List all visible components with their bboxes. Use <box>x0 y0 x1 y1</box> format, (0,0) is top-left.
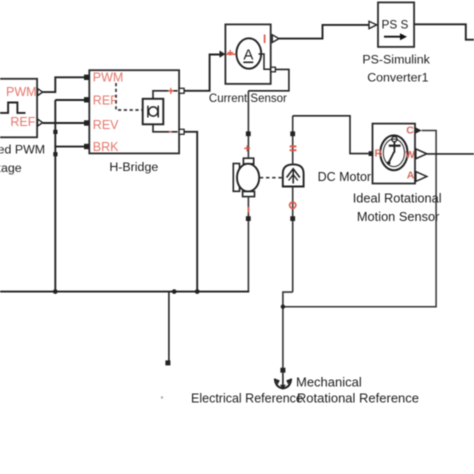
svg-text:PS-Simulink: PS-Simulink <box>362 53 430 67</box>
block M2 arch block with up arrow (DC Motor companion) <box>283 164 304 186</box>
wire H-Bridge + output to Current Sensor input <box>184 55 219 91</box>
port filled arrow C output of motion sensor <box>416 127 422 133</box>
port filled arrow + input of Current Sensor <box>220 51 226 58</box>
wire REF net branch to H-Bridge REF input <box>55 99 84 101</box>
block U2 H-Bridge <box>89 70 179 153</box>
port square top of DC Motor <box>246 131 251 136</box>
wire top lead of DC Motor <box>247 91 249 158</box>
svg-text:Voltage: Voltage <box>0 161 22 175</box>
wire top lead of arch block <box>292 116 294 165</box>
port square input PWM of H-Bridge <box>84 75 89 80</box>
wire REF net vertical <box>54 100 56 292</box>
wire electrical reference drop <box>168 292 170 361</box>
svg-text:C: C <box>406 125 414 137</box>
svg-text:BRK: BRK <box>93 140 119 154</box>
wire arch block bottom to mechanical reference <box>283 292 293 368</box>
wire REF net branch to H-Bridge BRK input <box>55 146 84 148</box>
wire H-Bridge - output down to ground bus <box>184 132 197 292</box>
svg-text:+: + <box>168 86 175 98</box>
port REF output arrow of U1 <box>38 119 43 126</box>
svg-text:-: - <box>169 126 173 138</box>
block U4 PS-Simulink Converter1 <box>378 2 414 47</box>
svg-text:H-Bridge: H-Bridge <box>109 160 158 174</box>
svg-text:R: R <box>375 148 383 160</box>
svg-text:REV: REV <box>93 118 119 132</box>
wire icon to + output <box>153 91 178 99</box>
port square bottom of arch block <box>290 216 295 221</box>
wire PS-Simulink Converter1 output to right edge <box>414 24 474 39</box>
port PWM output arrow of U1 <box>38 89 43 96</box>
port square input BRK of H-Bridge <box>84 144 89 149</box>
svg-text:PWM: PWM <box>93 71 124 85</box>
svg-text:PS S: PS S <box>382 17 409 31</box>
wire arch block top to motion sensor R input <box>293 116 369 154</box>
wire dashed link PWM to icon <box>116 83 142 110</box>
wire dashed link DC Motor to torque block <box>260 177 282 179</box>
wire motion sensor W output to right edge <box>427 153 474 155</box>
svg-text:Converter1: Converter1 <box>367 71 428 85</box>
svg-text:Motion Sensor: Motion Sensor <box>357 209 440 224</box>
label top pin of arch block (red marks) <box>290 146 297 150</box>
wire Current Sensor - output to DC Motor top <box>248 69 289 90</box>
wire internal - lead of Current Sensor <box>259 54 271 69</box>
junction dot H-Bridge minus on bus <box>195 289 200 294</box>
junction square on REF net lower <box>53 152 57 156</box>
wire bottom lead of arch block <box>292 187 294 293</box>
svg-text:Rotational Reference: Rotational Reference <box>297 391 419 406</box>
svg-text:+: + <box>244 144 251 156</box>
junction dot REF net on bus <box>53 289 58 294</box>
svg-text:A: A <box>407 170 415 182</box>
port square R input of motion sensor <box>369 151 374 156</box>
wire motion sensor C output down and across <box>283 131 436 307</box>
port square bottom of DC Motor <box>246 216 251 221</box>
wire icon to - output <box>153 124 178 132</box>
svg-text:W: W <box>405 150 415 161</box>
svg-text:DC Motor: DC Motor <box>318 170 371 184</box>
port open square - output of H-Bridge <box>179 129 184 134</box>
wire Current Sensor I output to PS-Simulink Converter1 <box>279 25 369 39</box>
port square top of arch block <box>290 131 295 136</box>
junction square on REF net upper <box>53 130 57 134</box>
port open arrow A output of motion sensor (unconnected) <box>416 172 427 182</box>
svg-text:Mechanical: Mechanical <box>296 374 362 389</box>
junction dot electrical reference on bus <box>172 289 177 294</box>
port open square - output of Current Sensor <box>271 67 276 72</box>
svg-text:A: A <box>243 47 253 64</box>
port square input REF of H-Bridge <box>84 97 89 102</box>
icon pulse waveform <box>0 103 26 113</box>
port open square + output of H-Bridge <box>179 88 184 93</box>
icon H-Bridge inner box with motor <box>143 99 164 125</box>
port open arrow W output of motion sensor <box>416 149 427 159</box>
svg-text:REF: REF <box>93 94 118 108</box>
wire bottom lead of DC Motor <box>247 197 249 292</box>
label bottom pin of arch block (red circle) <box>290 202 296 208</box>
junction dot C wire meets mechanical drop <box>281 305 285 309</box>
artifact dot <box>161 396 163 398</box>
svg-text:Electrical Reference: Electrical Reference <box>191 391 303 405</box>
block U1 Controlled PWM Voltage (cut off at left edge) <box>0 79 37 138</box>
wire PWM output to H-Bridge PWM input <box>43 77 85 92</box>
port open arrow input of PS-Simulink Converter1 <box>369 21 377 28</box>
label - pin of DC Motor (red tick) <box>248 207 250 213</box>
port open arrow I output of Current Sensor <box>272 35 279 43</box>
wire ground bus <box>0 291 249 293</box>
block M1 DC Motor icon <box>233 158 259 196</box>
svg-text:Ideal Rotational: Ideal Rotational <box>353 190 442 205</box>
block U3 Current Sensor <box>225 24 270 84</box>
svg-text:+: + <box>227 48 233 60</box>
port square mechanical rotational reference <box>280 368 285 373</box>
wire REF output to H-Bridge REV input <box>43 122 85 124</box>
port square input REV of H-Bridge <box>84 120 89 125</box>
svg-text:REF: REF <box>10 115 35 129</box>
port square electrical reference <box>165 360 170 365</box>
block U5 Ideal Rotational Motion Sensor <box>373 124 416 184</box>
svg-text:Controlled PWM: Controlled PWM <box>0 143 45 157</box>
svg-text:I: I <box>263 34 266 46</box>
ground symbol mechanical rotational reference anchor <box>275 373 291 390</box>
svg-text:PWM: PWM <box>6 85 37 99</box>
wire red + lead of Current Sensor <box>226 53 236 55</box>
